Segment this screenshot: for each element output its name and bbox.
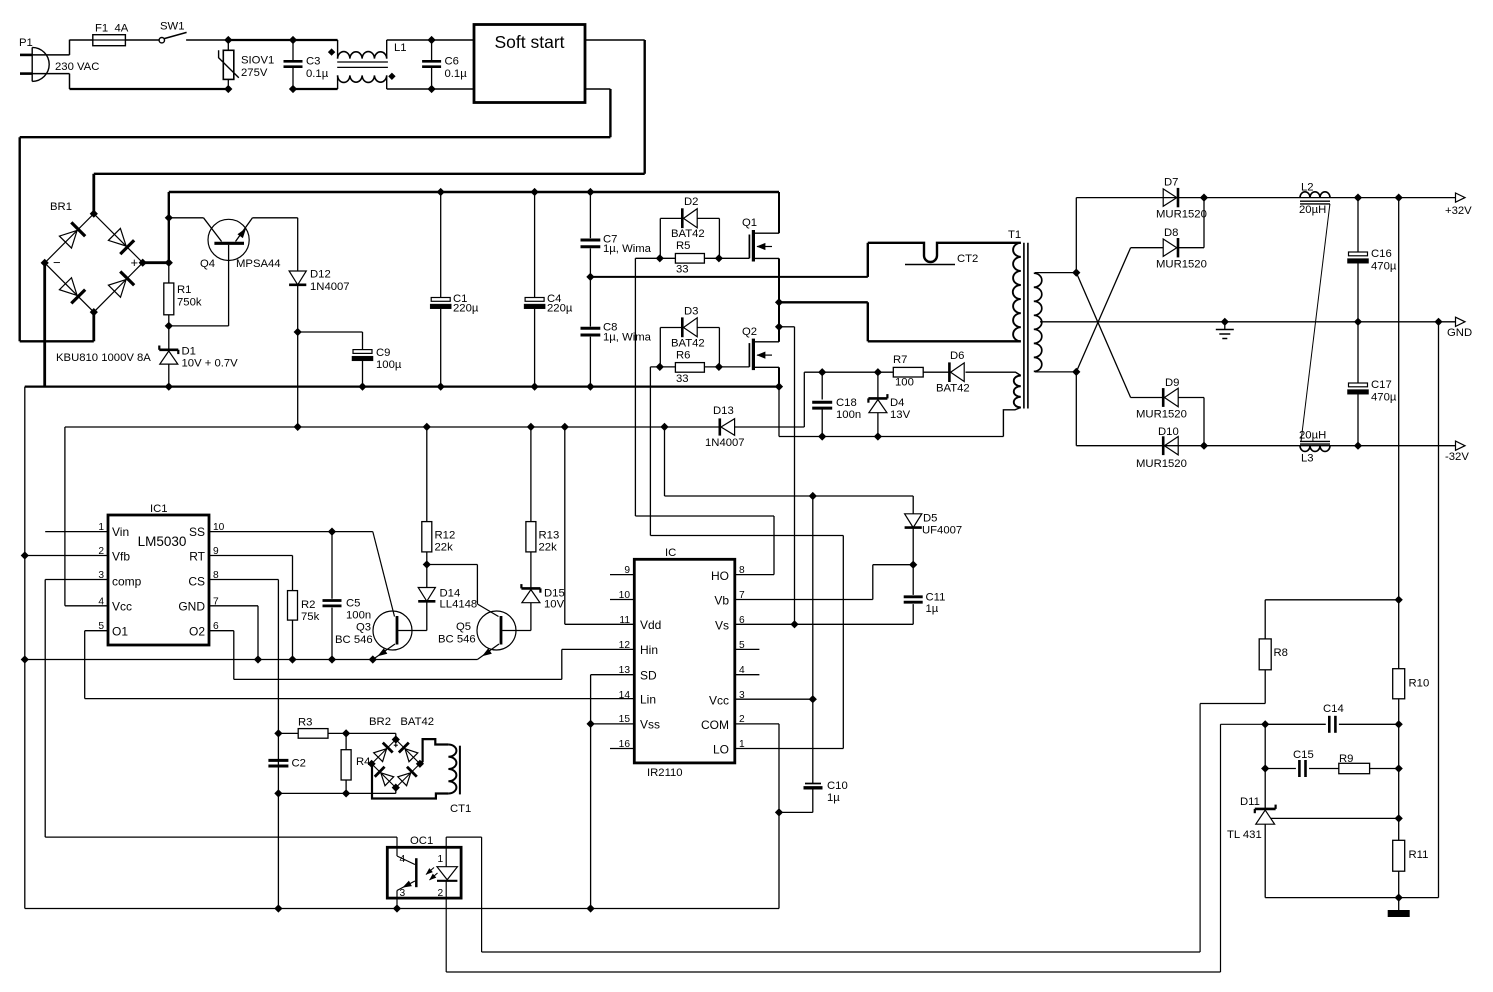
diode D10 MUR1520 xyxy=(1136,426,1187,470)
svg-text:LO: LO xyxy=(713,743,729,757)
pin 6 Vs line xyxy=(735,615,913,626)
svg-text:5: 5 xyxy=(739,640,745,651)
wire GND to TL431 column xyxy=(1438,322,1440,898)
svg-text:220µ: 220µ xyxy=(547,303,573,315)
svg-text:T1: T1 xyxy=(1008,229,1021,241)
svg-text:R8: R8 xyxy=(1274,647,1288,659)
pin 3 Vcc xyxy=(735,690,813,701)
svg-text:-32V: -32V xyxy=(1445,451,1469,463)
wire aux supply line xyxy=(804,371,893,373)
capacitor C18 100n xyxy=(812,372,861,436)
svg-text:Q5: Q5 xyxy=(456,621,471,633)
wire O1 to Lin xyxy=(85,631,635,699)
svg-text:20µH: 20µH xyxy=(1299,430,1326,442)
wire BR2 minus stub xyxy=(395,788,397,794)
node Vcc-D5 line branch xyxy=(809,493,816,500)
svg-text:2: 2 xyxy=(438,888,444,899)
IC IR2110 xyxy=(634,547,735,779)
svg-text:C18: C18 xyxy=(836,397,857,409)
transistor Q1 MOSFET xyxy=(742,217,779,262)
wire C14 line xyxy=(1265,723,1326,725)
resistor R9 xyxy=(1339,753,1399,774)
node R2 rail xyxy=(289,656,296,663)
node R9 right xyxy=(1395,765,1402,772)
node C7 top xyxy=(587,189,594,196)
resistor R5 33 xyxy=(660,218,719,275)
node BR2 top xyxy=(392,736,399,743)
wire D12 to C9 xyxy=(298,331,363,333)
svg-text:13: 13 xyxy=(619,665,631,676)
wire R6 left to gate bus xyxy=(650,366,675,368)
node SD bottom xyxy=(587,905,594,912)
node C4 bottom xyxy=(531,383,538,390)
svg-text:R10: R10 xyxy=(1409,678,1430,690)
node Vfb to ground column xyxy=(21,552,28,559)
svg-text:100n: 100n xyxy=(346,610,371,622)
node C14 left xyxy=(1262,721,1269,728)
diode D14 LL4148 xyxy=(418,565,477,631)
wire OC1 pin1 to R8 loop xyxy=(446,704,1265,953)
zener D1 10V xyxy=(159,326,238,387)
svg-text:R5: R5 xyxy=(676,240,690,252)
node BR2 bottom xyxy=(392,784,399,791)
svg-text:R7: R7 xyxy=(893,354,907,366)
node Vcc pin dot xyxy=(809,696,816,703)
wire L1 to C6 xyxy=(387,39,432,41)
bridge rectifier BR2 BAT42 xyxy=(369,716,434,788)
svg-text:100: 100 xyxy=(895,377,914,389)
node D1 ground xyxy=(165,383,172,390)
svg-text:1: 1 xyxy=(438,854,444,865)
svg-text:Vb: Vb xyxy=(714,594,729,608)
svg-text:Vss: Vss xyxy=(640,718,660,732)
capacitor C10 1u xyxy=(779,780,848,812)
svg-text:C6: C6 xyxy=(445,56,459,68)
node BR1 bottom vertex xyxy=(90,309,97,316)
node C15 left xyxy=(1262,765,1269,772)
svg-text:R9: R9 xyxy=(1339,753,1353,765)
resistor R13 22k xyxy=(526,427,559,588)
wire aux ground rail xyxy=(779,436,1003,438)
node GND column tap xyxy=(1435,318,1442,325)
svg-text:470µ: 470µ xyxy=(1371,392,1397,404)
svg-text:Vcc: Vcc xyxy=(709,694,729,708)
wire bus to Q1 drain xyxy=(778,192,780,233)
svg-text:C15: C15 xyxy=(1293,749,1314,761)
node D7/D8 cathodes xyxy=(1201,194,1208,201)
svg-text:BR1: BR1 xyxy=(50,201,72,213)
block Soft start xyxy=(474,25,585,103)
wire Vcc branch to D5 xyxy=(665,427,914,496)
svg-text:F1 4A: F1 4A xyxy=(95,23,129,35)
pin 5 stub xyxy=(735,640,760,651)
pin 10 SS xyxy=(209,522,373,533)
wire C15 line xyxy=(1265,768,1296,770)
wire secondary bottom to D10 rail xyxy=(1075,372,1077,446)
node secondary top xyxy=(1073,269,1080,276)
node C18 bottom xyxy=(819,433,826,440)
svg-text:IC: IC xyxy=(665,547,676,559)
svg-text:8: 8 xyxy=(213,570,219,581)
node Vdd branch xyxy=(561,424,568,431)
svg-text:100n: 100n xyxy=(836,409,861,421)
svg-text:Q2: Q2 xyxy=(742,326,757,338)
node IR2110 Vcc branch xyxy=(661,424,668,431)
capacitor C16 470u xyxy=(1348,198,1397,322)
svg-text:R4: R4 xyxy=(356,756,370,768)
wire Vs column xyxy=(794,327,796,625)
svg-text:Soft start: Soft start xyxy=(494,32,564,52)
svg-text:C3: C3 xyxy=(306,56,320,68)
wire HV bus xyxy=(169,191,779,193)
svg-text:R13: R13 xyxy=(539,530,560,542)
pin 14 Lin xyxy=(619,690,631,701)
wire Vs tap xyxy=(779,326,795,328)
svg-text:16: 16 xyxy=(619,739,631,750)
svg-text:1µ, Wima: 1µ, Wima xyxy=(603,332,652,344)
svg-text:3: 3 xyxy=(400,888,406,899)
svg-text:9: 9 xyxy=(213,546,219,557)
svg-text:20µH: 20µH xyxy=(1299,204,1326,216)
pin 2 Vfb xyxy=(25,546,108,557)
wire D8 branch xyxy=(1131,198,1204,248)
fuse F1 4A xyxy=(93,23,129,46)
wire D9 branch xyxy=(1131,398,1204,446)
transformer T1 core xyxy=(1008,229,1028,409)
node R1 bottom / Q4 base xyxy=(165,323,172,330)
svg-text:3: 3 xyxy=(98,570,104,581)
node C4 top xyxy=(531,189,538,196)
node R3/R4 junction xyxy=(343,730,350,737)
svg-text:14: 14 xyxy=(619,690,631,701)
svg-text:BR2 BAT42: BR2 BAT42 xyxy=(369,716,434,728)
svg-text:MUR1520: MUR1520 xyxy=(1136,409,1187,421)
capacitor C9 100u xyxy=(352,332,402,387)
svg-text:comp: comp xyxy=(112,575,142,589)
svg-text:3: 3 xyxy=(739,690,745,701)
svg-text:SS: SS xyxy=(189,525,205,539)
wire left ground column xyxy=(24,387,26,909)
switch SW1 xyxy=(159,21,187,43)
pin 4 stub xyxy=(735,665,760,676)
resistor R8 xyxy=(1259,600,1399,704)
node C18 top xyxy=(819,369,826,376)
capacitor C15 xyxy=(1293,749,1339,777)
svg-text:BC 546: BC 546 xyxy=(438,634,476,646)
resistor R3 xyxy=(278,717,328,739)
node R11 bottom xyxy=(1395,894,1402,901)
wire +32V to R10 column xyxy=(1398,198,1400,669)
wire Q2 drain xyxy=(778,327,780,342)
pin 12 Hin xyxy=(619,640,631,651)
node D12 to C9 xyxy=(294,329,301,336)
svg-text:D2: D2 xyxy=(684,196,698,208)
svg-text:HO: HO xyxy=(711,569,729,583)
shunt regulator D11 TL431 xyxy=(1227,796,1399,898)
svg-text:Q3: Q3 xyxy=(356,622,371,634)
svg-text:2: 2 xyxy=(739,714,745,725)
pin 9 RT xyxy=(209,546,293,557)
svg-text:75k: 75k xyxy=(301,611,320,623)
wire GND output line xyxy=(1225,321,1456,323)
node R5 right xyxy=(716,255,723,262)
svg-text:1µ, Wima: 1µ, Wima xyxy=(603,243,652,255)
svg-text:R2: R2 xyxy=(301,599,315,611)
capacitor C2 xyxy=(268,758,306,770)
transistor Q2 MOSFET xyxy=(742,326,779,370)
svg-text:230 VAC: 230 VAC xyxy=(55,61,99,73)
svg-text:IC1: IC1 xyxy=(150,503,168,515)
node C6 bottom xyxy=(428,86,435,93)
node R12 top xyxy=(423,424,430,431)
svg-text:4: 4 xyxy=(739,665,745,676)
diode D2 BAT42 xyxy=(660,196,719,240)
varistor SIOV1 275V xyxy=(219,40,275,89)
svg-text:C11: C11 xyxy=(926,592,946,604)
resistor R4 xyxy=(341,733,370,793)
svg-text:Lin: Lin xyxy=(640,693,656,707)
svg-text:10: 10 xyxy=(619,590,631,601)
svg-text:CS: CS xyxy=(188,575,205,589)
wire comp to optocoupler xyxy=(45,580,397,838)
node D12 to Vcc line xyxy=(294,424,301,431)
wire BR1 plus output xyxy=(143,261,169,264)
svg-text:33: 33 xyxy=(676,373,689,385)
resistor R6 33 xyxy=(660,328,719,386)
svg-text:Vdd: Vdd xyxy=(640,618,661,632)
transformer T1 auxiliary winding xyxy=(966,372,1021,436)
wire OC1 pin2 to TL431 xyxy=(446,724,1265,972)
wire R5 left to gate bus xyxy=(635,257,675,259)
svg-text:D4: D4 xyxy=(890,397,904,409)
svg-text:GND: GND xyxy=(178,600,205,614)
node BR1 left vertex xyxy=(41,260,48,267)
svg-text:0.1µ: 0.1µ xyxy=(306,68,329,80)
bridge rectifier BR1 KBU810 xyxy=(45,201,152,364)
wire bottom ground bus xyxy=(25,908,779,910)
capacitor C11 1u xyxy=(904,565,946,625)
node C2 bottom xyxy=(275,790,282,797)
svg-text:C14: C14 xyxy=(1323,703,1344,715)
node BR2 left xyxy=(368,760,375,767)
svg-text:D1: D1 xyxy=(182,346,196,358)
svg-text:Vfb: Vfb xyxy=(112,550,130,564)
node C8 bottom xyxy=(587,383,594,390)
svg-text:O1: O1 xyxy=(112,625,128,639)
svg-text:CT1: CT1 xyxy=(450,803,471,815)
pin 10 stub xyxy=(610,590,634,601)
svg-text:D11: D11 xyxy=(1240,796,1260,808)
svg-text:1: 1 xyxy=(98,522,104,533)
svg-text:RT: RT xyxy=(189,550,205,564)
svg-text:Vcc: Vcc xyxy=(112,600,132,614)
node C16 top xyxy=(1355,194,1362,201)
diode D8 MUR1520 xyxy=(1156,227,1207,271)
node BR1 right vertex xyxy=(139,259,146,266)
svg-text:12: 12 xyxy=(619,640,631,651)
node analog rail left xyxy=(21,656,28,663)
svg-text:Vin: Vin xyxy=(112,525,129,539)
svg-text:D13: D13 xyxy=(713,405,734,417)
svg-text:750k: 750k xyxy=(177,297,202,309)
transistor Q4 MPSA44 xyxy=(169,218,298,326)
wire TL431 anode ground line xyxy=(1265,897,1438,899)
svg-text:TL 431: TL 431 xyxy=(1227,829,1262,841)
resistor R12 22k xyxy=(422,427,455,565)
node R4 bottom xyxy=(343,790,350,797)
capacitor C17 470u xyxy=(1348,322,1397,446)
wire cross diagonal bottom-to-D8 xyxy=(1076,248,1130,372)
arrow GND output xyxy=(1456,317,1466,326)
resistor R11 xyxy=(1393,840,1429,910)
svg-text:D7: D7 xyxy=(1164,177,1178,189)
svg-text:8: 8 xyxy=(739,565,745,576)
svg-text:L3: L3 xyxy=(1301,453,1314,465)
wire -32V rail xyxy=(1076,445,1455,447)
transformer T1 primary winding xyxy=(1013,243,1021,341)
pin 3 comp xyxy=(45,570,108,581)
wire L2-L3 coupling xyxy=(1301,204,1330,442)
svg-text:C10: C10 xyxy=(827,780,848,792)
capacitor C4 220u xyxy=(524,192,573,387)
node Q3 emitter rail xyxy=(369,656,376,663)
wire R5 right to Q1 gate xyxy=(704,257,749,259)
svg-text:7: 7 xyxy=(739,590,745,601)
svg-text:D9: D9 xyxy=(1165,377,1179,389)
plug P1 230VAC xyxy=(19,37,99,81)
pin 9 stub xyxy=(610,565,634,576)
capacitor C8 1u Wima xyxy=(581,277,652,387)
svg-text:D5: D5 xyxy=(923,513,937,525)
node R3/C2 top xyxy=(275,730,282,737)
svg-text:CT2: CT2 xyxy=(957,253,978,265)
svg-text:4: 4 xyxy=(98,596,104,607)
wire Vcc column xyxy=(812,496,814,784)
node C1 bottom xyxy=(437,383,444,390)
svg-text:Q1: Q1 xyxy=(742,217,757,229)
node CS bottom xyxy=(275,905,282,912)
wire C7/C8 mid to CT2 xyxy=(590,276,867,278)
svg-text:GND: GND xyxy=(1447,327,1472,339)
resistor R10 xyxy=(1393,669,1430,841)
wire Q2 source to aux ground xyxy=(778,387,780,437)
svg-text:−: − xyxy=(53,255,61,270)
arrow +32V output xyxy=(1456,193,1466,202)
wire R3 to BR2 plus xyxy=(328,733,396,739)
node C10 to COM column xyxy=(776,809,783,816)
wire C2/R4 bottom line xyxy=(278,792,395,794)
diode D5 UF4007 xyxy=(905,496,963,565)
svg-text:1µ: 1µ xyxy=(827,792,840,804)
wire switch node to CT2 xyxy=(779,301,868,303)
svg-text:D10: D10 xyxy=(1158,426,1179,438)
pin 2 COM xyxy=(735,714,779,909)
wire fuse to switch xyxy=(125,39,159,41)
svg-text:9: 9 xyxy=(624,565,630,576)
node SD Vss junction xyxy=(587,721,594,728)
choke L1 xyxy=(329,40,407,89)
node GND pin rail xyxy=(255,656,262,663)
svg-text:Vs: Vs xyxy=(715,619,729,633)
svg-text:1µ: 1µ xyxy=(926,603,939,615)
wire +32V rail xyxy=(1076,197,1455,199)
node R5 left xyxy=(656,255,663,262)
wire cross diagonal top-to-D9 xyxy=(1076,273,1130,398)
inductor L2 20uH xyxy=(1299,182,1330,216)
svg-text:10V + 0.7V: 10V + 0.7V xyxy=(182,358,239,370)
diode D13 1N4007 xyxy=(705,405,745,449)
node C6 top xyxy=(428,37,435,44)
capacitor C14 xyxy=(1323,703,1399,733)
node R6 left xyxy=(656,364,663,371)
node C1 top xyxy=(437,189,444,196)
svg-text:BAT42: BAT42 xyxy=(671,338,705,350)
svg-text:O2: O2 xyxy=(189,625,205,639)
node Q4 emitter junction xyxy=(165,214,172,221)
svg-text:1N4007: 1N4007 xyxy=(705,437,745,449)
inductor L3 20uH xyxy=(1299,430,1330,465)
wire AC input loop xyxy=(32,40,228,89)
node Q1 source / CT2 xyxy=(776,299,783,306)
wire Q2 source to ground xyxy=(778,367,780,386)
svg-text:D8: D8 xyxy=(1164,227,1178,239)
transformer T1 secondary winding xyxy=(1034,273,1225,372)
svg-text:10V: 10V xyxy=(544,599,565,611)
svg-text:UF4007: UF4007 xyxy=(922,525,962,537)
pin 1 LO route to R6 xyxy=(650,367,843,750)
svg-text:BAT42: BAT42 xyxy=(671,228,705,240)
svg-text:6: 6 xyxy=(213,621,219,632)
svg-text:OC1: OC1 xyxy=(410,835,433,847)
capacitor C1 220u xyxy=(430,192,479,387)
pin 7 GND xyxy=(209,596,258,607)
svg-text:275V: 275V xyxy=(241,67,268,79)
IC IC1 LM5030 xyxy=(108,503,209,645)
wire to C3 xyxy=(228,39,293,41)
node SIOV bottom xyxy=(225,86,232,93)
svg-text:15: 15 xyxy=(619,714,631,725)
current transformer CT1 xyxy=(372,739,471,815)
wire HV column xyxy=(168,192,170,263)
zener D15 10V xyxy=(521,584,564,630)
svg-text:R12: R12 xyxy=(435,530,456,542)
node Q2 source xyxy=(776,383,783,390)
pin 4 Vcc xyxy=(65,596,108,607)
svg-text:SW1: SW1 xyxy=(160,21,184,33)
pin 11 Vdd xyxy=(565,427,635,626)
svg-text:13V: 13V xyxy=(890,409,911,421)
svg-text:22k: 22k xyxy=(435,542,454,554)
svg-text:SD: SD xyxy=(640,669,657,683)
wire R6 right to Q2 gate xyxy=(704,366,749,368)
svg-text:11: 11 xyxy=(619,615,630,626)
svg-text:SIOV1: SIOV1 xyxy=(241,55,274,67)
pin 7 Vb route xyxy=(735,565,913,601)
pin 8 CS xyxy=(209,570,278,581)
wire O2 to Hin xyxy=(234,631,635,680)
pin 5 O1 xyxy=(85,621,108,632)
svg-text:22k: 22k xyxy=(539,542,558,554)
ground symbol xyxy=(1216,322,1234,339)
svg-text:33: 33 xyxy=(676,264,689,276)
wire switch to varistor xyxy=(186,39,228,41)
node R12 bottom / D14 xyxy=(423,561,430,568)
svg-text:C2: C2 xyxy=(292,758,306,770)
svg-text:LL4148: LL4148 xyxy=(440,599,478,611)
svg-text:R6: R6 xyxy=(676,350,690,362)
transistor Q3 BC546 xyxy=(335,532,427,660)
svg-text:220µ: 220µ xyxy=(453,303,479,315)
